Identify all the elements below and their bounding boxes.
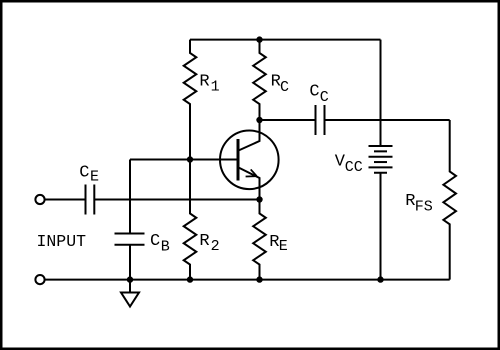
wire base lead bbox=[130, 159, 238, 161]
svg-text:C: C bbox=[280, 79, 289, 96]
node base junction dot bbox=[187, 156, 193, 162]
wire VCC column lower segment bbox=[380, 173, 382, 280]
node VCC bottom junction dot bbox=[377, 276, 383, 282]
svg-text:R: R bbox=[199, 232, 209, 251]
wire top rail from R1 top to VCC column bbox=[190, 39, 381, 41]
capacitor CC bbox=[316, 105, 325, 135]
wire VCC column upper segment bbox=[380, 40, 382, 146]
svg-text:C: C bbox=[309, 83, 319, 102]
wire base node down to CB bbox=[129, 160, 131, 234]
svg-text:2: 2 bbox=[211, 238, 220, 255]
resistor RE bbox=[253, 200, 266, 280]
node collector junction dot bbox=[256, 117, 262, 123]
node collector-supply junction dot bbox=[256, 36, 262, 42]
ground symbol triangle bbox=[121, 293, 139, 307]
battery VCC bbox=[369, 146, 393, 173]
transistor Q1 circle bbox=[220, 131, 279, 190]
svg-text:C: C bbox=[320, 89, 329, 106]
transistor Q1 emitter lead bbox=[239, 168, 260, 200]
svg-text:C: C bbox=[150, 232, 160, 251]
node CB-ground junction dot bbox=[127, 276, 133, 282]
svg-text:E: E bbox=[279, 238, 288, 255]
transistor Q1 emitter arrow bbox=[246, 169, 257, 176]
wire CC capacitor to RFS column bbox=[325, 119, 450, 121]
node R2 bottom junction dot bbox=[187, 276, 193, 282]
resistor R2 bbox=[184, 160, 197, 280]
node RE bottom junction dot bbox=[256, 276, 262, 282]
transistor Q1 collector lead bbox=[239, 120, 260, 151]
svg-text:INPUT: INPUT bbox=[37, 232, 87, 251]
transistor Q1 base bar bbox=[237, 139, 240, 181]
svg-text:1: 1 bbox=[211, 78, 220, 95]
svg-text:C: C bbox=[79, 163, 89, 182]
node emitter junction dot bbox=[256, 196, 262, 202]
wire CE to emitter bbox=[94, 199, 259, 201]
wire collector to CC capacitor bbox=[260, 119, 316, 121]
resistor R1 bbox=[184, 40, 197, 160]
wire bottom rail bbox=[45, 279, 450, 281]
capacitor CB bbox=[115, 234, 145, 245]
wire CB to bottom rail bbox=[129, 245, 131, 280]
terminal input top circle bbox=[35, 195, 44, 204]
svg-text:CC: CC bbox=[345, 159, 363, 176]
svg-text:B: B bbox=[161, 238, 170, 255]
svg-text:E: E bbox=[90, 169, 99, 186]
resistor RC bbox=[253, 40, 266, 120]
ground stem bbox=[129, 280, 131, 293]
resistor RFS bbox=[443, 120, 456, 280]
capacitor CE bbox=[86, 185, 95, 215]
terminal input bottom circle bbox=[35, 275, 44, 284]
svg-text:R: R bbox=[199, 73, 209, 92]
svg-text:FS: FS bbox=[415, 198, 433, 215]
wire input terminal to CE bbox=[45, 199, 86, 201]
